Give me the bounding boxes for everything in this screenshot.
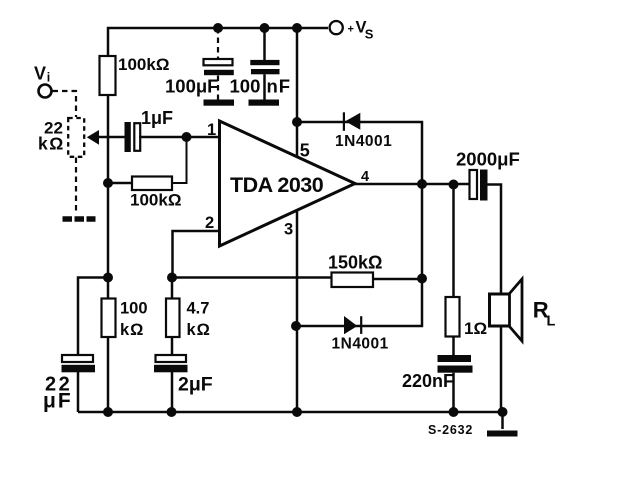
svg-text:5: 5 (300, 141, 310, 161)
svg-text:1Ω: 1Ω (464, 319, 487, 338)
svg-text:1N4001: 1N4001 (335, 133, 392, 150)
svg-text:V: V (34, 64, 46, 84)
svg-text:nF: nF (267, 76, 292, 97)
svg-text:1: 1 (207, 121, 216, 139)
svg-text:100kΩ: 100kΩ (118, 55, 169, 74)
svg-text:2: 2 (205, 214, 214, 232)
svg-text:i: i (47, 71, 50, 85)
svg-text:2000μF: 2000μF (456, 149, 520, 170)
svg-text:S: S (365, 26, 374, 41)
svg-text:2μF: 2μF (178, 374, 213, 396)
svg-text:+: + (348, 24, 354, 36)
svg-text:100: 100 (120, 300, 148, 318)
svg-text:kΩ: kΩ (120, 321, 144, 339)
svg-text:150kΩ: 150kΩ (328, 253, 382, 273)
svg-text:L: L (547, 314, 556, 330)
svg-text:100kΩ: 100kΩ (130, 191, 181, 210)
svg-text:4.7: 4.7 (187, 300, 210, 318)
svg-text:100μF: 100μF (165, 76, 219, 97)
svg-text:1N4001: 1N4001 (332, 336, 389, 353)
svg-text:100: 100 (230, 76, 261, 97)
svg-text:1μF: 1μF (141, 108, 173, 128)
svg-text:kΩ: kΩ (38, 134, 65, 154)
svg-text:3: 3 (284, 221, 293, 239)
svg-text:TDA 2030: TDA 2030 (230, 173, 324, 197)
svg-text:kΩ: kΩ (187, 321, 211, 339)
svg-text:S-2632: S-2632 (428, 423, 473, 437)
svg-text:220nF: 220nF (402, 371, 454, 391)
svg-text:μF: μF (43, 390, 73, 413)
